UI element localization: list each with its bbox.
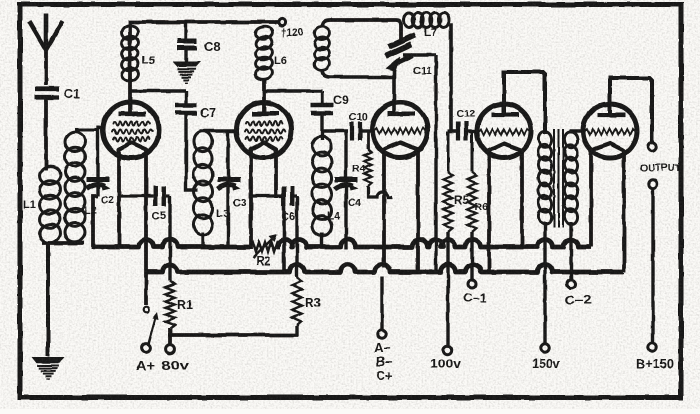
bus lower A+ line xyxy=(146,265,624,272)
wire antenna to C1 xyxy=(44,50,48,85)
triode V1 xyxy=(103,102,159,158)
bus upper B- line right xyxy=(278,240,592,248)
hook A- below bus xyxy=(380,276,383,330)
terminal +120 xyxy=(278,18,303,39)
variable capacitor C4 xyxy=(335,131,362,249)
capacitor C9 xyxy=(311,93,349,113)
wire R4 to cathode xyxy=(368,186,392,197)
wire C1 to L1 xyxy=(44,97,48,170)
inductor L7 xyxy=(404,13,449,40)
triode V2 xyxy=(237,103,292,158)
wire R5 to 100v xyxy=(446,232,449,346)
wire C12 left xyxy=(448,129,456,132)
capacitor C6 xyxy=(251,186,295,272)
wire L6 branch to C9 xyxy=(263,91,322,104)
wire V3 right leg xyxy=(416,149,420,273)
grid capacitor C11 xyxy=(385,35,432,77)
resistor R1 xyxy=(165,281,193,328)
variable capacitor C3 xyxy=(218,131,247,249)
wire L3 bottom xyxy=(201,232,204,249)
wire C2 to bus corner xyxy=(93,196,98,249)
wire V5 right leg xyxy=(622,150,626,272)
wire C10 to T3 xyxy=(360,129,373,132)
inductor L2 xyxy=(63,130,97,243)
inductor L3 xyxy=(192,129,229,237)
wire loop bottom xyxy=(322,69,394,114)
terminal OUTPUT lower xyxy=(649,180,657,188)
terminal 80v xyxy=(161,345,190,373)
inductor L4 xyxy=(311,134,341,237)
wire top rail xyxy=(130,22,280,80)
terminal A- xyxy=(374,330,392,383)
transformer core xyxy=(554,129,563,228)
wire C6 to R3 xyxy=(294,196,297,277)
resistor R3 xyxy=(292,277,321,326)
terminal OUTPUT upper xyxy=(648,143,656,151)
triode V3 xyxy=(373,103,428,158)
capacitor C7 xyxy=(175,105,216,120)
wire V4 left leg xyxy=(487,150,491,273)
terminal C-1 xyxy=(463,280,487,305)
resistor R5 xyxy=(444,131,470,232)
terminal C-2 xyxy=(564,280,592,307)
wire L4 bottom xyxy=(320,233,323,249)
transformer secondary xyxy=(563,130,579,226)
ground antenna xyxy=(32,357,65,379)
wire plate branch to C7 xyxy=(129,91,186,104)
capacitor C12 xyxy=(456,108,475,141)
wire grid T2 from L3 xyxy=(199,129,236,132)
wire L7 right side xyxy=(448,25,456,131)
wire C12 to T4 grid xyxy=(466,129,477,132)
switch S1 xyxy=(144,307,159,344)
terminal 150v xyxy=(532,344,561,371)
terminal 100v xyxy=(430,346,462,371)
capacitor C1 xyxy=(35,87,80,101)
wire V4 plate loop xyxy=(504,72,545,134)
wire grid T1 xyxy=(75,126,104,196)
wire L1 L2 bottoms xyxy=(42,243,84,356)
antenna xyxy=(29,14,63,50)
wire C7 down xyxy=(186,113,197,190)
wire V3 left leg A- xyxy=(382,149,386,268)
wire L5 to T1 plate xyxy=(128,78,132,114)
wire C9 to L4 xyxy=(320,113,323,140)
rheostat R2 xyxy=(250,234,280,268)
wire V5 left leg xyxy=(589,150,593,247)
wire V2 left leg xyxy=(249,149,253,249)
capacitor C8 xyxy=(177,22,221,54)
wire grid line T3 xyxy=(322,129,348,132)
wire R3 bottom xyxy=(295,326,298,336)
inductor L5 xyxy=(120,24,155,83)
ground C8 xyxy=(172,62,201,84)
wire secondary bottom to C-2 xyxy=(569,222,572,280)
wire V1 right leg / A+ feed xyxy=(144,149,148,305)
wire C8 to ground xyxy=(184,48,187,62)
wire secondary top to T5 grid xyxy=(571,131,583,133)
triode V4 xyxy=(477,104,531,158)
wire V1 left leg xyxy=(117,149,121,249)
wire L6 to T2 plate xyxy=(262,78,266,114)
capacitor C5 xyxy=(119,186,170,222)
wire primary to 150v xyxy=(543,222,546,344)
transformer primary xyxy=(537,130,553,226)
label OUTPUT xyxy=(640,162,682,174)
wire V4 right leg xyxy=(520,150,524,249)
terminal B+150 xyxy=(636,343,674,371)
wire R1 to 80v xyxy=(168,328,172,345)
capacitor C10 xyxy=(349,111,368,141)
wire loop top rail xyxy=(322,20,401,41)
bus upper B- line xyxy=(93,240,250,248)
wire R1 bottom to R3 xyxy=(168,333,298,337)
wire V5 plate loop xyxy=(610,78,652,142)
tickler loop coil xyxy=(313,25,330,71)
wire V2 right leg xyxy=(274,149,278,198)
wire C5 to R1 xyxy=(168,196,171,281)
terminal A+ xyxy=(136,344,155,373)
resistor R6 xyxy=(468,131,489,232)
wire R6 to C-1 xyxy=(470,232,473,280)
triode V5 xyxy=(583,104,637,158)
wire C11 to bypass xyxy=(403,55,436,273)
resistor R4 xyxy=(352,131,372,186)
inductor L6 xyxy=(254,25,286,81)
inductor L1 xyxy=(23,164,62,245)
wire OUTPUT to B+150 xyxy=(651,188,654,343)
variable capacitor C2 xyxy=(87,180,115,207)
